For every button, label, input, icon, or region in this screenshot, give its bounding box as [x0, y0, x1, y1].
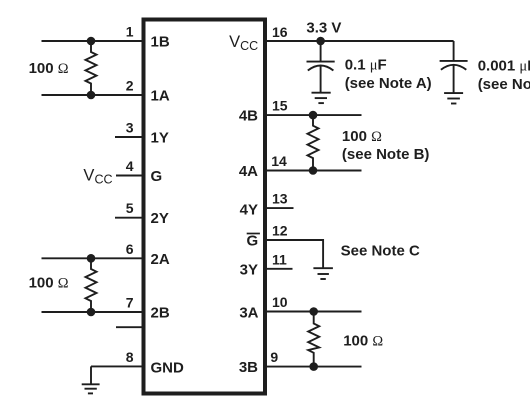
- svg-text:3A: 3A: [239, 304, 258, 321]
- svg-text:2B: 2B: [151, 305, 170, 322]
- svg-text:16: 16: [272, 24, 288, 40]
- svg-text:4Y: 4Y: [240, 202, 258, 219]
- svg-text:3.3 V: 3.3 V: [306, 20, 341, 37]
- svg-text:2: 2: [126, 78, 134, 94]
- svg-text:(see Note A): (see Note A): [345, 75, 432, 92]
- svg-text:1A: 1A: [151, 88, 170, 105]
- svg-text:100 Ω: 100 Ω: [343, 333, 383, 350]
- svg-text:7: 7: [126, 295, 134, 311]
- svg-text:0.1 μF: 0.1 μF: [345, 56, 387, 73]
- svg-text:4A: 4A: [239, 163, 258, 180]
- svg-text:3B: 3B: [239, 359, 258, 376]
- svg-text:15: 15: [272, 98, 288, 114]
- svg-text:11: 11: [272, 251, 287, 267]
- svg-text:3: 3: [126, 120, 134, 136]
- svg-text:(see Note A): (see Note A): [478, 76, 530, 93]
- svg-text:14: 14: [271, 153, 287, 169]
- svg-text:6: 6: [126, 241, 134, 257]
- svg-text:12: 12: [272, 223, 288, 239]
- svg-text:G: G: [151, 168, 163, 185]
- svg-text:5: 5: [126, 200, 134, 216]
- svg-text:3Y: 3Y: [240, 261, 258, 278]
- svg-text:100 Ω: 100 Ω: [29, 60, 69, 77]
- svg-text:(see Note B): (see Note B): [342, 146, 430, 163]
- svg-text:100 Ω: 100 Ω: [342, 128, 382, 145]
- svg-text:G: G: [247, 233, 259, 250]
- svg-text:13: 13: [272, 191, 288, 207]
- svg-text:9: 9: [270, 349, 278, 365]
- svg-text:GND: GND: [151, 359, 185, 376]
- svg-text:0.001 μF: 0.001 μF: [478, 57, 530, 74]
- svg-text:2Y: 2Y: [151, 210, 169, 227]
- svg-text:See Note C: See Note C: [341, 242, 420, 259]
- svg-text:8: 8: [126, 349, 134, 365]
- svg-text:100 Ω: 100 Ω: [29, 275, 69, 292]
- svg-text:10: 10: [272, 294, 288, 310]
- svg-text:4: 4: [126, 158, 134, 174]
- svg-text:4B: 4B: [239, 108, 258, 125]
- svg-text:2A: 2A: [151, 251, 170, 268]
- svg-text:1: 1: [126, 24, 134, 40]
- svg-text:1B: 1B: [151, 34, 170, 51]
- svg-text:1Y: 1Y: [151, 130, 169, 147]
